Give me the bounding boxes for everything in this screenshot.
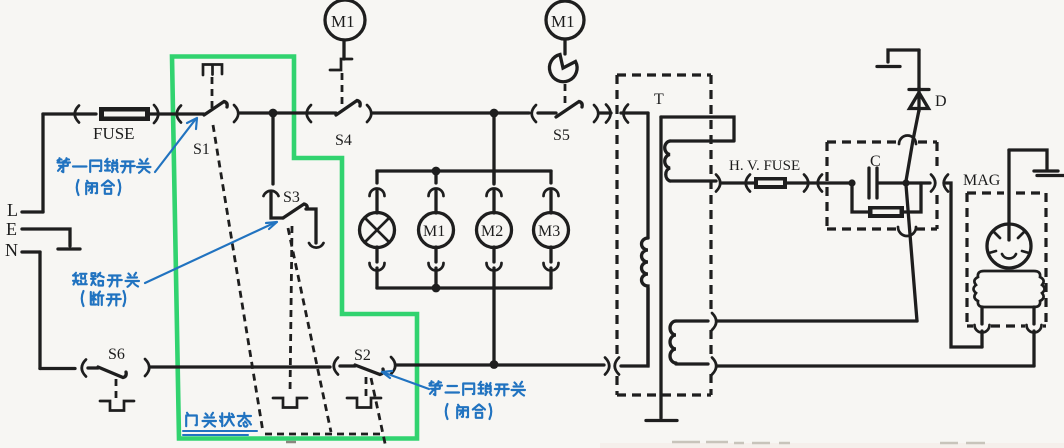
connector HV fuse right pair <box>804 175 822 192</box>
svg-text:M1: M1 <box>331 12 355 31</box>
svg-text:D: D <box>935 93 947 110</box>
node L terminal <box>7 200 43 220</box>
svg-text:M2: M2 <box>481 223 503 240</box>
motor M1 branch top <box>429 171 444 213</box>
note first interlock switch label <box>58 158 151 195</box>
connector S1 right <box>234 105 238 122</box>
wire S1 to junction <box>240 111 273 114</box>
svg-text:S3: S3 <box>283 189 300 206</box>
motor M1 branch bottom <box>429 247 444 288</box>
connector fuse right <box>154 105 158 123</box>
svg-text:S4: S4 <box>335 132 352 149</box>
svg-text:M3: M3 <box>538 223 560 240</box>
connector S5 left <box>532 105 536 122</box>
wire S5 to T <box>600 111 648 114</box>
node junction cap left <box>848 179 855 186</box>
link door mech S3 long <box>288 228 331 432</box>
connector S2 left <box>334 358 338 375</box>
coupling M1-S4 <box>330 59 352 70</box>
link S6 mechanical <box>115 379 118 398</box>
highlight green door-zone outline <box>172 57 417 439</box>
fuse HV <box>729 158 800 189</box>
motor M3 branch top <box>544 171 559 213</box>
connector S6 right <box>145 359 149 376</box>
connector T primary pair <box>606 105 628 123</box>
connector secondary bottom <box>712 358 716 375</box>
motor M1 fan <box>546 1 584 54</box>
motor M3 branch bottom <box>544 247 559 288</box>
wire S3 fixed contact <box>306 209 316 243</box>
ground T core <box>646 419 677 422</box>
switch S2 blade <box>355 365 383 375</box>
node N terminal <box>5 240 40 260</box>
note short switch label <box>73 273 139 306</box>
motor M2 circle <box>477 213 512 248</box>
wire N drop <box>38 252 41 369</box>
transformer primary winding <box>642 238 648 366</box>
wire lamp group feed <box>492 113 495 184</box>
node junction S3 tap <box>269 109 278 118</box>
fuse FUSE <box>93 107 150 143</box>
connector cap out pair <box>931 175 948 192</box>
svg-text:S5: S5 <box>553 127 570 144</box>
link S1 plunger <box>211 77 214 108</box>
connector fuse left <box>75 106 79 123</box>
connector S5 right <box>594 105 598 122</box>
capacitor box dashed <box>827 142 937 229</box>
magnetron MAG dashed case <box>967 193 1046 326</box>
faint caption remnants <box>286 442 985 443</box>
note second interlock switch label <box>430 381 526 419</box>
lamp oven light <box>360 213 395 248</box>
wire bottom bus <box>377 286 551 289</box>
motor M1 turntable <box>325 0 365 59</box>
transformer secondary winding <box>670 321 708 364</box>
connector S2 right <box>391 357 395 374</box>
link S2 mechanical <box>365 377 368 396</box>
wire S2 to T <box>397 363 604 366</box>
wire diode to cap junction <box>906 110 919 181</box>
wire cap to MAG heater <box>946 183 982 347</box>
lamp branch bottom <box>370 247 385 288</box>
node junction diode <box>902 179 909 186</box>
connector S6 left <box>82 360 86 377</box>
motor M2 branch bottom <box>487 247 502 288</box>
node junction bottom bus <box>432 284 441 293</box>
node junction top bus <box>432 167 441 176</box>
connector HV fuse left pair <box>716 175 750 192</box>
wire to HV fuse <box>722 181 754 184</box>
wire T primary bottom <box>621 288 648 366</box>
wire junction to S4 <box>273 111 336 114</box>
transformer T dashed case <box>617 75 711 395</box>
wire fuse to S1 <box>150 112 204 115</box>
connector heater left <box>975 325 990 333</box>
wire L riser <box>41 114 44 212</box>
motor M3 circle <box>534 213 569 248</box>
svg-text:FUSE: FUSE <box>93 124 135 143</box>
svg-text:S6: S6 <box>108 346 125 363</box>
link S5 mechanical <box>564 84 567 104</box>
wire S3 tap drop <box>271 115 274 184</box>
switch S5 blade <box>556 102 582 118</box>
connector S3 bottom <box>309 243 324 248</box>
arrow to S2 <box>382 371 429 389</box>
wire secondary top run <box>717 319 917 322</box>
switch S1 blade <box>204 102 227 116</box>
wire S2 lead <box>340 364 355 367</box>
motor M1 circle <box>419 213 454 248</box>
connector S4 right <box>367 105 371 122</box>
svg-text:S2: S2 <box>354 347 371 364</box>
wire bottom main left <box>40 367 75 370</box>
connector heater right <box>1027 325 1042 333</box>
wire filament loop top <box>661 117 734 140</box>
wire S3 lead <box>271 192 283 218</box>
resistor bleed loop <box>852 183 921 218</box>
svg-text:E: E <box>6 219 17 239</box>
door plunger S1 <box>203 65 222 76</box>
wire S6 to S2 <box>151 365 330 368</box>
connector secondary top <box>712 313 716 330</box>
wire top bus <box>377 169 551 172</box>
node E terminal <box>6 219 80 249</box>
svg-text:S1: S1 <box>193 141 210 158</box>
shield pass bottom <box>898 227 916 236</box>
motor M2 branch top <box>487 171 502 213</box>
svg-text:N: N <box>5 240 18 260</box>
wire secondary bottom run <box>717 364 1034 367</box>
door plunger S3 <box>273 398 307 408</box>
ground diode top <box>877 50 919 67</box>
svg-text:H. V. FUSE: H. V. FUSE <box>729 158 800 174</box>
node junction M2 return <box>490 360 499 369</box>
svg-text:C: C <box>870 153 881 170</box>
magnetron tube circle <box>987 224 1031 268</box>
wire top main left segment <box>43 112 96 115</box>
switch S6 blade <box>98 367 126 378</box>
wire M2 branch return <box>492 288 495 365</box>
connector T neutral pair <box>605 358 619 375</box>
switch S4 blade <box>336 101 360 116</box>
transformer primary feed <box>646 113 649 238</box>
wire S4 to S5 <box>373 111 529 114</box>
svg-text:L: L <box>7 200 18 220</box>
door bottom bar <box>265 433 383 436</box>
note door state label <box>183 413 257 435</box>
door plunger S6 <box>100 401 134 411</box>
diode D <box>909 50 947 111</box>
fan blade symbol <box>549 55 577 82</box>
svg-text:M1: M1 <box>551 12 575 31</box>
arrow to S3 <box>145 222 277 283</box>
wire S5 lead <box>538 111 556 114</box>
connector S3 top <box>264 191 279 196</box>
heater leg right <box>1032 307 1035 324</box>
link door mech S2 long <box>371 378 386 448</box>
heater leg right out <box>1032 331 1035 366</box>
shield pass top <box>899 136 916 145</box>
heater leg left <box>980 307 983 324</box>
wire S6 lead <box>88 366 98 369</box>
antenna feed MAG <box>1009 150 1064 240</box>
door plunger S2 <box>347 398 381 408</box>
capacitor C <box>869 153 881 198</box>
switch S3 blade <box>283 204 307 218</box>
link S3 plunger <box>290 226 292 394</box>
arrow to S1 <box>155 118 197 172</box>
transformer core line <box>659 117 662 418</box>
svg-text:M1: M1 <box>423 223 445 240</box>
link door mech S1 long <box>213 125 263 432</box>
svg-text:MAG: MAG <box>963 172 1001 189</box>
link S4 mechanical <box>341 73 344 106</box>
connector S4 left <box>307 105 311 122</box>
wire cap right <box>878 181 930 184</box>
wire HV fuse right <box>787 181 850 184</box>
svg-text:T: T <box>654 91 664 108</box>
wire HV riser secondary top <box>906 185 917 321</box>
lamp branch top <box>370 171 385 213</box>
connector S1 left <box>177 106 181 123</box>
magnetron heater bobbin <box>974 271 1045 307</box>
heater leg left out <box>980 331 983 347</box>
transformer filament winding <box>665 141 734 181</box>
node junction M2 feed <box>490 109 499 118</box>
